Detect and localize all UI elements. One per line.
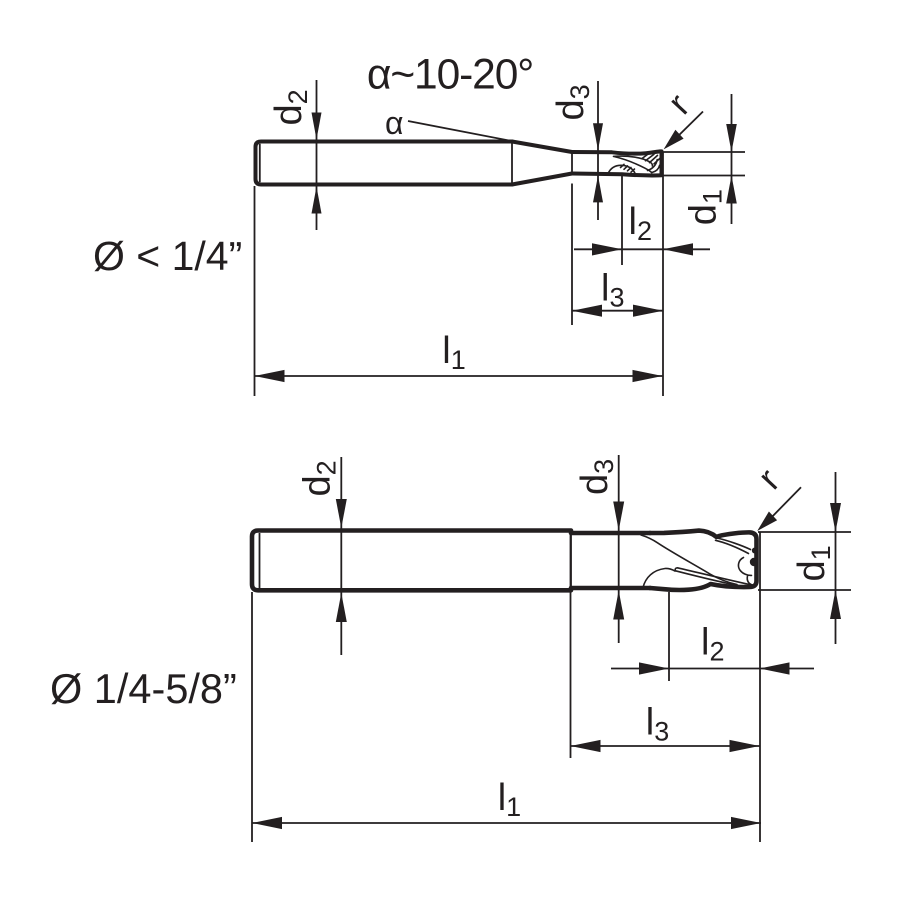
- flute lower-left arc (bottom tool): [643, 568, 675, 587]
- dimension l1 (top): line: [255, 375, 663, 377]
- dimension d1 (top): arrows: [726, 124, 737, 152]
- radius r (top): leader arrowhead: [664, 130, 684, 150]
- dimension l1 (bottom): extension lines: [251, 592, 253, 842]
- dimension l3 (bottom): arrows: [571, 740, 601, 752]
- dimension d1 (bottom): extension lines: [758, 531, 851, 533]
- taper bottom edge (top tool): [512, 174, 572, 185]
- neck and cutter head outline (top tool): [572, 151, 662, 175]
- taper top edge (top tool): [512, 142, 572, 153]
- neck top edge (bottom tool): [571, 531, 650, 536]
- cutter head outline (bottom tool): [650, 531, 757, 590]
- radius r (bottom): leader arrowhead: [757, 512, 777, 532]
- dimension l2 (top): extension line: [621, 176, 623, 265]
- dimension l1 (bottom): line: [252, 822, 761, 824]
- flute hatch lines (top tool): [642, 153, 660, 163]
- dimension l3 (top): arrows: [572, 305, 602, 317]
- alpha leader line: [408, 121, 512, 141]
- dimension d2 (top): arrows: [312, 113, 322, 140]
- flute main sweep curve (bottom tool): [641, 535, 737, 585]
- head right edge blob (bottom tool): [750, 558, 758, 566]
- dimension d2 (bottom): line: [340, 457, 342, 655]
- dimension l3 (bottom): line: [571, 745, 760, 747]
- dimension d2 (bottom): arrows: [336, 499, 347, 528]
- flute right hook (bottom tool): [738, 558, 752, 586]
- flute lens curve (top tool): [614, 156, 653, 172]
- dimension d1 (bottom): arrows: [830, 503, 841, 532]
- dimension l2 (bottom): line: [611, 668, 814, 670]
- dimension d1 (top): line: [731, 94, 733, 224]
- flute end curl (top tool): [648, 160, 660, 173]
- shank (bottom tool): [252, 531, 571, 591]
- dimension l1 (bottom): arrows: [252, 817, 282, 829]
- dimension d3 (bottom): arrows: [613, 502, 624, 531]
- svg-text:Ø 1/4-5/8”: Ø 1/4-5/8”: [50, 665, 237, 712]
- dimension l3 (top): extension line: [571, 184, 573, 326]
- svg-text:Ø < 1/4”: Ø < 1/4”: [93, 233, 242, 279]
- svg-text:α~10-20°: α~10-20°: [367, 52, 533, 99]
- svg-text:α: α: [385, 105, 404, 141]
- shank (top tool): [256, 142, 513, 185]
- dimension l2 (bottom): arrows: [639, 662, 669, 674]
- radius r (top): leader line: [672, 112, 703, 143]
- dimension l2 (top): line: [574, 248, 710, 250]
- flute upper land lines (bottom tool): [716, 538, 751, 554]
- shank/taper boundary line (top tool): [511, 144, 513, 183]
- dimension d3 (bottom): line: [618, 455, 620, 643]
- dimension l2 (bottom): extension line: [668, 592, 670, 681]
- shank end face line (top tool): [259, 144, 261, 182]
- flute land sliver (bottom tool): [675, 568, 751, 588]
- dimension l3 (top): line: [572, 310, 663, 312]
- dimension l1 (top): extension lines: [254, 186, 256, 396]
- dimension d3 (top): line: [597, 81, 599, 220]
- dimension d2 (top): line: [316, 80, 318, 230]
- flute lower arc (top tool): [608, 165, 635, 174]
- flute hatch strip lower-left (top tool): [621, 164, 635, 172]
- shank end face line (bottom tool): [259, 533, 261, 588]
- dimension l2 (top): arrows: [592, 243, 622, 255]
- dimension l3 (bottom): extension line: [570, 534, 572, 758]
- neck bottom edge (bottom tool): [571, 586, 650, 591]
- dimension d3 (top): arrows: [593, 123, 603, 150]
- dimension d1 (bottom): line: [835, 472, 837, 644]
- shank/neck step line (bottom tool): [570, 533, 572, 588]
- head right edge upper knob (bottom tool): [752, 548, 758, 554]
- dimension l1 (top): arrows: [255, 370, 285, 382]
- dimension d1 (top): extension lines: [663, 151, 745, 153]
- taper/neck boundary line (top tool): [571, 154, 573, 173]
- radius r (bottom): leader line: [766, 487, 801, 523]
